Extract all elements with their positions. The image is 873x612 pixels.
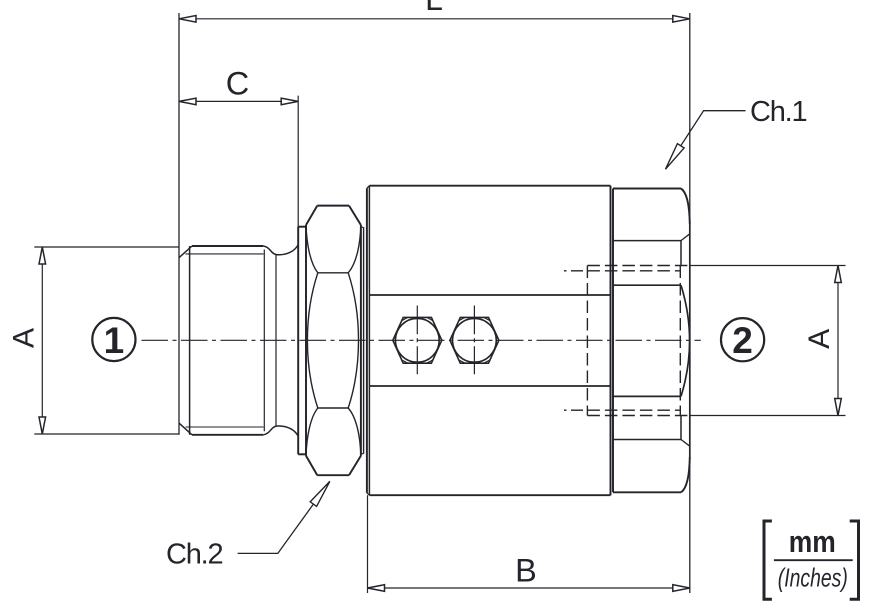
svg-text:B: B — [515, 553, 537, 589]
svg-text:2: 2 — [732, 320, 753, 361]
svg-text:Ch.1: Ch.1 — [750, 96, 807, 128]
svg-text:Ch.2: Ch.2 — [166, 539, 223, 571]
svg-text:(Inches): (Inches) — [778, 562, 848, 592]
svg-text:A: A — [803, 329, 836, 349]
svg-text:mm: mm — [789, 524, 836, 559]
svg-text:C: C — [226, 66, 249, 102]
svg-text:A: A — [8, 328, 41, 348]
svg-text:1: 1 — [104, 320, 125, 361]
svg-text:L: L — [425, 0, 443, 17]
